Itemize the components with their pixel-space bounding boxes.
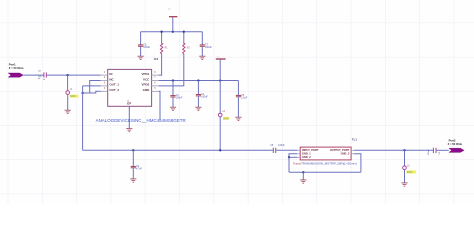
wire L2 lower bbox=[219, 117, 221, 150]
wire L3 to ground bbox=[404, 170, 406, 183]
svg-text:100nF: 100nF bbox=[278, 145, 285, 147]
node input junction bbox=[66, 74, 68, 76]
svg-text:ANALOGDEVICESINC__HMC454MS8GET: ANALOGDEVICESINC__HMC454MS8GETR bbox=[96, 118, 186, 123]
svg-text:Z = 50 Ohm: Z = 50 Ohm bbox=[448, 142, 463, 146]
pin numbers IC1 bbox=[104, 72, 156, 103]
node bus power bbox=[172, 31, 174, 33]
inductor L1 bbox=[66, 89, 73, 94]
node L2 bottom junction bbox=[219, 149, 221, 151]
svg-text:VCC: VCC bbox=[143, 77, 150, 81]
svg-text:TL1: TL1 bbox=[352, 138, 358, 142]
node bus R1 bbox=[160, 31, 162, 33]
port P1 bbox=[8, 63, 24, 78]
svg-text:Trace(TRANSMISSION_MSTRIP_50R): Trace(TRANSMISSION_MSTRIP_50R)(L=20mm) bbox=[293, 162, 357, 166]
wire L3 upper bbox=[404, 150, 406, 166]
pin names IC1 bbox=[109, 72, 150, 106]
wire output vertical bbox=[82, 86, 84, 150]
wire TL1 gnd bottom bbox=[289, 171, 361, 173]
wire C1 to ground bbox=[172, 98, 174, 108]
capacitor C6 bbox=[138, 44, 151, 50]
value highlight L3 bbox=[407, 170, 417, 174]
power flag 5V (VCC rail) bbox=[216, 56, 226, 59]
power flag 5V bbox=[168, 9, 177, 17]
capacitor C5 (series) bbox=[270, 145, 285, 153]
ground under C3 bbox=[235, 117, 241, 120]
capacitor C8 (series) bbox=[38, 71, 46, 81]
svg-text:100nF: 100nF bbox=[143, 46, 150, 49]
TL1 pin names bbox=[302, 148, 350, 159]
svg-text:OUT_1: OUT_1 bbox=[109, 83, 119, 87]
pin stubs IC1 bbox=[101, 75, 159, 109]
wire top bus bbox=[141, 31, 203, 33]
capacitor C3 bbox=[236, 94, 248, 100]
wire GND_3 bbox=[354, 154, 361, 173]
capacitor C9 (series) bbox=[428, 148, 441, 156]
wire EP to ground bbox=[128, 106, 130, 128]
wire TL1 gnd drop bbox=[302, 172, 304, 180]
ground under C2 bbox=[130, 179, 136, 182]
wire OUT_2 pin4 bbox=[83, 91, 101, 93]
svg-text:GND: GND bbox=[143, 88, 151, 92]
node VCC C4 bbox=[197, 79, 199, 81]
wire C3 to ground bbox=[237, 97, 239, 117]
svg-text:100nF: 100nF bbox=[201, 96, 208, 99]
wire C6 to ground bbox=[140, 47, 142, 56]
svg-text:Port1: Port1 bbox=[9, 63, 16, 67]
svg-text:GND_3: GND_3 bbox=[341, 152, 350, 156]
port P2 bbox=[448, 138, 465, 152]
node L3 junction bbox=[403, 149, 405, 151]
wire R1 to bus bbox=[161, 32, 163, 43]
capacitor C2 bbox=[131, 165, 143, 171]
ground under C1 bbox=[170, 107, 176, 110]
wire C4 branch bbox=[197, 81, 199, 95]
ground under L1 bbox=[65, 110, 71, 113]
svg-text:600R: 600R bbox=[70, 96, 76, 98]
node TL1 gnd junction left bbox=[288, 156, 290, 158]
wire C4 to ground bbox=[197, 97, 199, 108]
op-amp IC1 body bbox=[108, 69, 152, 106]
wire port1 to C8 bbox=[23, 74, 43, 76]
wire TL1 out to C9 bbox=[354, 149, 433, 151]
svg-text:600R: 600R bbox=[223, 118, 229, 120]
node bus R2 bbox=[183, 31, 185, 33]
wire VPD2 to R2 bbox=[159, 55, 184, 86]
wire C1 branch bbox=[172, 81, 174, 96]
wire input node down to L1 bbox=[67, 75, 69, 91]
resistor R2 bbox=[183, 43, 191, 56]
svg-text:600R: 600R bbox=[407, 172, 413, 174]
svg-text:EP: EP bbox=[127, 102, 131, 106]
wire C8 to IC pin IN bbox=[47, 74, 101, 76]
ground under L3 bbox=[401, 183, 407, 186]
svg-text:GND_1: GND_1 bbox=[302, 152, 311, 156]
wire GND pin5 down bbox=[159, 91, 160, 120]
node VCC C1 bbox=[172, 79, 174, 81]
value highlight L2 bbox=[223, 117, 229, 120]
ground under EP bbox=[126, 128, 132, 131]
wire VCC rail bbox=[159, 80, 239, 82]
capacitor C7 bbox=[200, 44, 213, 50]
wire GND_1 bbox=[289, 154, 297, 158]
svg-text:100nF: 100nF bbox=[176, 97, 183, 100]
svg-text:GND_2: GND_2 bbox=[302, 155, 311, 159]
wire C5 to TL1 bbox=[276, 149, 297, 151]
wire VPD1 to R1 bbox=[159, 55, 162, 75]
node TL1 gnd bottom junction bbox=[302, 171, 304, 173]
svg-text:Z = 50 Ohm: Z = 50 Ohm bbox=[9, 66, 24, 70]
node VCC L2 bbox=[219, 79, 221, 81]
wire bus to C7 bbox=[201, 32, 203, 45]
svg-text:INPUT_PORT: INPUT_PORT bbox=[302, 148, 319, 152]
svg-text:OUTPUT_PORT: OUTPUT_PORT bbox=[330, 148, 350, 152]
wire C2 branch bbox=[132, 150, 134, 166]
svg-text:100uF: 100uF bbox=[205, 46, 212, 49]
wire C7 to ground bbox=[201, 47, 203, 56]
svg-text:OUT_2: OUT_2 bbox=[109, 88, 119, 92]
inductor L3 bbox=[403, 165, 410, 169]
ground under C4 bbox=[195, 107, 201, 110]
ground under C7 bbox=[199, 56, 205, 59]
svg-text:VPD1: VPD1 bbox=[141, 72, 149, 76]
capacitor C1 bbox=[170, 94, 183, 100]
wire OUT_1 pin3 bbox=[83, 85, 101, 87]
wire power flag 2 stem bbox=[219, 60, 221, 81]
svg-text:VPD2: VPD2 bbox=[141, 83, 149, 87]
value highlight L1 bbox=[70, 95, 79, 99]
node C2 junction bbox=[132, 149, 134, 151]
TL1 pin stubs bbox=[297, 150, 354, 157]
wire power flag drop bbox=[172, 17, 174, 31]
svg-text:4.7uF: 4.7uF bbox=[136, 168, 143, 171]
wire VCC corner to C3 bbox=[237, 81, 239, 96]
capacitor C4 bbox=[196, 93, 209, 99]
svg-text:IN: IN bbox=[109, 72, 112, 76]
transmission line TL1 body bbox=[300, 147, 351, 160]
node output junction bbox=[81, 92, 83, 94]
ground under TL1 bbox=[300, 180, 306, 183]
wire L2 upper bbox=[219, 81, 221, 114]
resistor R1 bbox=[160, 43, 168, 56]
wire TL1 gnd left vertical bbox=[288, 157, 290, 172]
wire R2 to bus bbox=[183, 32, 185, 43]
ground under C6 bbox=[138, 56, 144, 59]
wire NC pin2 bbox=[90, 81, 101, 94]
wire bus to C6 bbox=[140, 32, 142, 45]
inductor L2 bbox=[218, 111, 225, 117]
svg-text:100nF: 100nF bbox=[428, 148, 430, 155]
wire output bottom run bbox=[83, 149, 273, 151]
wire C9 to port P2 bbox=[436, 149, 448, 151]
svg-text:2.2uF: 2.2uF bbox=[241, 97, 248, 100]
wire GND_2 bbox=[289, 156, 297, 158]
svg-text:5V: 5V bbox=[168, 9, 171, 11]
wire C2 to ground bbox=[132, 168, 134, 179]
svg-text:IC1: IC1 bbox=[154, 57, 159, 61]
wire L1 to ground bbox=[67, 95, 69, 111]
svg-text:Port2: Port2 bbox=[449, 138, 456, 142]
